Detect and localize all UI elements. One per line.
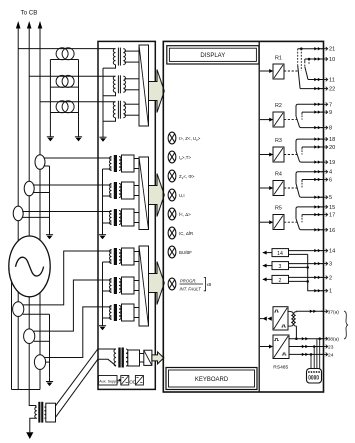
svg-text:22: 22 [329, 87, 335, 93]
signal arrow neutral voltage input [152, 352, 164, 364]
display box [167, 46, 259, 64]
svg-text:3: 3 [329, 262, 332, 268]
wire connector to 23 [313, 347, 315, 369]
wire neutral to earthing transformer [29, 390, 36, 408]
arrow to CB phase 3 [38, 21, 43, 29]
RS485 driver U6 [273, 335, 289, 359]
pin 4 [314, 170, 317, 173]
wire phase L3 below generator [39, 292, 41, 355]
pin 22 [314, 87, 317, 90]
LED indicator 4 [168, 189, 176, 201]
svg-text:9: 9 [329, 110, 332, 116]
input VT transformer T1 [113, 48, 125, 66]
input CT transformer T9 [110, 304, 135, 321]
ADC block U3 [139, 246, 149, 326]
svg-text:7: 7 [329, 102, 332, 108]
wire VT input ground bus [102, 68, 104, 133]
wire binary input common [308, 254, 324, 290]
svg-text:5: 5 [329, 195, 332, 201]
ground VT input module [102, 133, 104, 137]
node 24 connector [310, 353, 313, 356]
svg-text:RS485: RS485 [273, 365, 288, 371]
wire phase L2 below CT2 [28, 196, 30, 237]
svg-text:14: 14 [329, 249, 335, 255]
relay internal divider [258, 41, 260, 392]
binary input 14 [263, 249, 324, 257]
arrow aux supply input [117, 379, 120, 381]
svg-text:10: 10 [329, 57, 335, 63]
earthing transformer secondary winding [44, 407, 46, 418]
svg-text:3: 3 [279, 264, 282, 270]
wire T6 primary return [103, 222, 112, 224]
wire VT bus left [49, 60, 51, 133]
current transformer CT1 [35, 155, 45, 170]
wire T10 output to ADC [140, 353, 144, 355]
aux supply label box [99, 376, 118, 386]
input CT transformer T8 [110, 277, 135, 294]
LED indicator 3 [168, 170, 176, 182]
current transformer CT3 [13, 206, 23, 221]
wire T2 secondary to ADC [124, 78, 139, 80]
wire T1 primary return [103, 65, 116, 69]
wire phase L3 to VT3 and input module [40, 101, 116, 103]
wire CT2 return to earth bus [34, 192, 50, 194]
ground VT bus left [49, 133, 51, 137]
svg-text:21: 21 [329, 47, 335, 53]
relay R5 contacts [296, 207, 324, 230]
svg-text:19: 19 [329, 160, 335, 166]
wire T1 secondary to ADC [124, 50, 139, 52]
wire connector to 38a inner [316, 339, 318, 369]
wire phase L1 vertical upper [17, 27, 19, 207]
wire T8 output to ADC [134, 280, 139, 282]
wire CT input ground bus lower [102, 262, 104, 322]
ADC block U1 [139, 45, 149, 126]
wire neutral bus bottom [12, 389, 41, 391]
pin 10 [314, 57, 317, 60]
pin 37a [310, 310, 313, 313]
wire CT5 return to earth bus [34, 340, 50, 342]
input CT transformer T5 [110, 182, 135, 199]
power supply AC-DC converter [121, 376, 129, 386]
pin 38a [302, 337, 305, 340]
wire T6 output to ADC [134, 212, 139, 214]
wire CT4 secondary to input module [23, 251, 112, 305]
wire T9 primary return [103, 317, 112, 319]
svg-text:17: 17 [329, 213, 335, 219]
wire CT return bus upper [49, 166, 51, 231]
arrow to CB phase 2 [27, 21, 32, 29]
svg-text:R5: R5 [275, 206, 282, 212]
svg-text:20: 20 [329, 145, 335, 151]
keyboard box [166, 368, 257, 390]
LED indicator 1 [168, 132, 176, 144]
LED indicator 2 [168, 151, 176, 163]
power supply DC-DC converter [135, 376, 143, 386]
pin 8 [314, 126, 317, 129]
LED indicator 8 programmable [168, 278, 176, 290]
svg-text:2: 2 [279, 278, 282, 284]
wire earthing transformer output upper diagonal [56, 349, 117, 406]
relay R3 contacts [296, 139, 324, 162]
ground CT return bus lower [49, 377, 51, 381]
pin 3 [314, 262, 317, 265]
input VT transformer T3 [113, 101, 125, 119]
binary input 2 [263, 275, 324, 283]
pin 19 [314, 160, 317, 163]
svg-text:16: 16 [329, 228, 335, 234]
svg-text:38(a): 38(a) [328, 337, 340, 343]
pin 11 [314, 78, 317, 81]
wire connector to 24 [310, 354, 312, 368]
arrow to earth [26, 432, 33, 439]
binary input 3 [263, 262, 324, 270]
pin 1 [314, 289, 317, 292]
wire phase L2 below generator [28, 297, 30, 329]
svg-text:x8: x8 [207, 282, 212, 287]
wire T3 primary return [103, 118, 116, 122]
wire T4 primary return [103, 168, 112, 170]
signal arrow current inputs lower [149, 262, 165, 305]
ground CT input module upper [102, 231, 104, 235]
wire CT5 secondary to input module [34, 280, 112, 331]
input CT transformer T4 [110, 155, 135, 172]
input CT transformer T6 [110, 209, 135, 226]
pin 17 [314, 213, 317, 216]
analog input module box [98, 41, 155, 389]
wire CT4 return to earth bus [23, 313, 50, 315]
pin 20 [314, 145, 317, 148]
wire earthing transformer output lower diagonal [56, 359, 117, 417]
protection relay main box [163, 41, 323, 392]
earthing transformer burden box [46, 403, 56, 422]
wire pin 38a [289, 338, 324, 340]
wire earthing transformer to earth arrow [30, 418, 37, 432]
wire phase L1 below generator [17, 292, 19, 302]
earthing transformer core [38, 402, 40, 423]
pin 2 [314, 276, 317, 279]
wire pin 24 [289, 353, 324, 355]
arrow RS485 input [260, 346, 270, 348]
wire CT6 secondary to input module [45, 307, 112, 358]
svg-text:18: 18 [329, 137, 335, 143]
svg-text:6: 6 [329, 178, 332, 184]
svg-text:To CB: To CB [21, 10, 38, 17]
wire CT6 below [39, 369, 41, 389]
node binary common 3 [306, 266, 309, 269]
svg-text:4: 4 [329, 170, 332, 176]
svg-text:R1: R1 [275, 56, 282, 62]
pin 24 [302, 353, 305, 356]
ADC block U2 [139, 157, 149, 230]
input CT transformer T7 [110, 248, 135, 265]
relay R2 contacts [296, 104, 324, 127]
wire CT6 return to earth bus [46, 361, 50, 363]
wire generator star point [11, 282, 13, 390]
voltage transformer VT1 [56, 48, 74, 60]
svg-text:15: 15 [329, 205, 335, 211]
label LED 8 PROGR INT FAULT x8 [180, 278, 212, 292]
wire phase L1 to VT1 and input module [18, 48, 115, 50]
wire T3 secondary to ADC [124, 103, 139, 105]
wire T7 output to ADC [134, 251, 139, 253]
bracket 37a 38a [344, 311, 348, 339]
ground CT input module lower [102, 322, 104, 326]
wire CT3 secondary to input module [22, 211, 111, 213]
wire pin 23 [289, 346, 324, 348]
node 38a connector [318, 337, 321, 340]
wire CT4 below [17, 316, 19, 389]
wire T5 primary return [103, 195, 112, 197]
svg-text:1: 1 [329, 289, 332, 295]
wire phase L3 below CT1 [39, 169, 41, 240]
earthing transformer primary winding [35, 407, 37, 418]
svg-text:2: 2 [329, 275, 332, 281]
wire phase L1 below CT3 [17, 221, 19, 242]
signal arrow voltage inputs [149, 70, 165, 113]
wire CT1 return to earth bus [44, 165, 49, 167]
node binary common 2 [306, 280, 309, 283]
svg-text:U,I: U,I [179, 193, 185, 198]
svg-text:KEYBOARD: KEYBOARD [195, 377, 229, 383]
wire CT1 secondary to input module [44, 157, 112, 159]
current transformer CT6 [34, 355, 45, 370]
voltage transformer VT2 [56, 75, 74, 87]
pin 9 [314, 110, 317, 113]
svg-text:24: 24 [328, 352, 334, 358]
svg-text:BU/BF: BU/BF [179, 250, 192, 255]
wire VT3 secondary rung [50, 112, 78, 114]
wire transformer to 38a [295, 326, 298, 339]
pin 16 [314, 228, 317, 231]
input VT transformer T2 [113, 75, 125, 93]
svg-text:8: 8 [329, 126, 332, 132]
wire T4 output to ADC [134, 158, 139, 160]
node 38a transformer [295, 337, 298, 340]
svg-text:14: 14 [277, 251, 283, 257]
svg-text:11: 11 [329, 78, 335, 84]
voltage transformer VT3 [56, 101, 74, 113]
pin 5 [314, 196, 317, 199]
node 23 connector [313, 345, 316, 348]
pin 7 [314, 103, 317, 106]
current transformer CT2 [24, 181, 34, 196]
wire phase L3 vertical upper [39, 27, 41, 155]
wire CT2 secondary to input module [33, 184, 111, 186]
wire phase L2 to VT2 and input module [29, 75, 115, 77]
wire T8 primary return [103, 290, 112, 292]
relay R4 contacts [296, 172, 324, 198]
wire pin 37a [296, 310, 324, 313]
current transformer CT4 [13, 302, 24, 317]
wire T7 primary return [103, 261, 112, 263]
pin 15 [314, 205, 317, 208]
ground VT bus right [78, 133, 80, 137]
wire CT input ground bus upper [102, 169, 104, 231]
isolation transformer [288, 311, 296, 326]
svg-text:R2: R2 [275, 103, 282, 109]
ADC block U4 [144, 350, 152, 365]
svg-text:DISPLAY: DISPLAY [200, 53, 225, 59]
pin 6 [314, 178, 317, 181]
pin 23 [302, 345, 305, 348]
current transformer CT5 [24, 329, 35, 344]
svg-text:f<, Δ>: f<, Δ> [179, 212, 191, 217]
svg-text:23: 23 [328, 345, 334, 351]
arrow serial output [260, 317, 272, 321]
wire VT1 secondary rung [50, 59, 78, 61]
pin 18 [314, 137, 317, 140]
LED indicator 6 [168, 227, 176, 239]
svg-text:IC, ΔfR: IC, ΔfR [179, 231, 193, 236]
svg-text:Aux. Supply: Aux. Supply [99, 379, 119, 383]
LED indicator 7 [168, 246, 176, 258]
wire CT5 below [28, 344, 30, 390]
svg-text:PROGR.: PROGR. [180, 279, 197, 284]
svg-text:R3: R3 [275, 138, 282, 144]
signal arrow current inputs upper [149, 174, 165, 217]
wire T9 output to ADC [134, 307, 139, 309]
wire VT bus right [78, 60, 80, 133]
wire CT3 return to earth bus [23, 216, 50, 218]
svg-text:R4: R4 [275, 172, 282, 178]
svg-text:37(a): 37(a) [328, 309, 340, 315]
input transformer T10 neutral voltage [114, 348, 140, 368]
wire T2 primary return [103, 92, 116, 96]
generator G [9, 236, 50, 297]
optocoupler U5 [273, 307, 288, 330]
pin 14 [314, 249, 317, 252]
serial connector [307, 369, 322, 384]
pin 21 [314, 47, 317, 50]
arrow to CB phase 1 [16, 21, 21, 29]
wire T5 output to ADC [134, 185, 139, 187]
svg-text:INT. FAULT: INT. FAULT [180, 286, 202, 291]
LED indicator 5 [168, 208, 176, 220]
wire VT2 secondary rung [50, 86, 78, 88]
wire phase L2 vertical upper [28, 27, 30, 182]
wire connector to 38a outer [319, 339, 321, 369]
wire CT return bus lower [49, 314, 51, 377]
relay R1 contacts [298, 47, 324, 88]
ground CT return bus upper [49, 231, 51, 235]
